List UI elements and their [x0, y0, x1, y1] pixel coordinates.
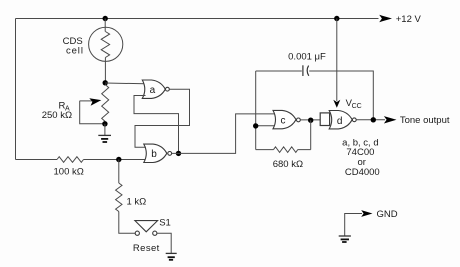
wire pot to ground	[104, 124, 106, 136]
gate b output bubble	[168, 152, 172, 156]
wire 1k resistor top	[118, 160, 120, 184]
svg-text:S1: S1	[159, 217, 171, 228]
svg-text:cell: cell	[66, 46, 84, 57]
node top rail / CDS junction	[103, 16, 108, 21]
switch S1 left contact	[135, 231, 139, 235]
svg-text:680 kΩ: 680 kΩ	[273, 159, 303, 170]
ground symbol right	[339, 235, 351, 237]
svg-text:d: d	[337, 116, 343, 127]
wire cap right to output node	[309, 71, 373, 120]
gate c output bubble	[297, 118, 301, 122]
wire Vcc drop	[336, 19, 338, 102]
node pot bottom junction	[102, 121, 107, 126]
nand gate c	[273, 110, 296, 128]
svg-text:100 kΩ: 100 kΩ	[54, 167, 84, 178]
resistor 100 k	[57, 157, 84, 163]
svg-text:c: c	[281, 116, 286, 127]
resistor 680 k	[256, 147, 311, 153]
wire left vertical rail	[15, 19, 17, 160]
ground under pot	[98, 134, 111, 136]
svg-text:0.001 μF: 0.001 μF	[288, 51, 326, 62]
wire node to gate a top input	[105, 82, 145, 85]
Vcc arrow into gate d	[333, 100, 340, 108]
svg-text:CD4000: CD4000	[345, 167, 380, 178]
photocell CDS circle	[89, 27, 123, 61]
wire resistor to b input	[84, 159, 148, 161]
svg-text:1 kΩ: 1 kΩ	[127, 196, 147, 207]
wire c output to d input	[300, 119, 320, 121]
svg-text:GND: GND	[376, 209, 397, 220]
gate a output bubble	[166, 87, 170, 91]
+12 V supply arrow	[379, 15, 392, 22]
node CDS / pot junction	[103, 80, 108, 85]
capacitor 0.001uF right plate	[307, 66, 309, 76]
node c bottom input junction	[253, 123, 258, 128]
node top rail / Vcc junction	[334, 16, 339, 21]
photocell CDS internal resistor	[101, 32, 109, 58]
wire c bottom input stub	[256, 125, 276, 127]
wire cap left feedback	[256, 70, 302, 72]
node d output junction	[371, 117, 376, 122]
wire a output feedback to b top input	[135, 89, 190, 147]
wire CDS cell drop	[104, 19, 106, 32]
wire GND stub	[345, 214, 362, 236]
wire 100k row	[16, 159, 58, 161]
wire d output	[356, 119, 385, 121]
Tone output arrow	[384, 116, 397, 123]
ground under switch	[166, 252, 177, 254]
node c output junction	[308, 118, 313, 123]
wire b output to gate c top input	[172, 114, 276, 153]
gate d input short box	[320, 113, 329, 126]
potentiometer RA wiper arrow	[80, 100, 93, 102]
wire b output feedback to a bottom input	[134, 96, 179, 154]
nand gate a	[142, 80, 165, 98]
switch S1 right contact	[153, 231, 157, 235]
capacitor 0.001uF left plate	[302, 65, 304, 76]
svg-text:+12 V: +12 V	[396, 14, 422, 25]
svg-text:250 kΩ: 250 kΩ	[42, 110, 72, 121]
gate d output bubble	[352, 118, 356, 122]
resistor 1 k	[116, 183, 122, 212]
wire 1k to switch	[119, 212, 135, 234]
wire c output down to 680k	[310, 120, 312, 149]
GND arrow	[361, 210, 372, 217]
wire wiper loop to bottom	[80, 101, 105, 124]
wire top +12V rail	[16, 18, 379, 20]
svg-text:b: b	[151, 149, 157, 160]
wire switch to ground	[157, 233, 171, 253]
node b output junction	[176, 151, 181, 156]
potentiometer RA body	[102, 85, 109, 122]
switch S1 button triangle	[135, 221, 158, 232]
svg-text:CC: CC	[352, 103, 362, 110]
wire c input vertical net	[255, 71, 257, 150]
nand gate d	[329, 111, 352, 129]
svg-text:a: a	[150, 85, 156, 96]
wire CDS bottom to node	[104, 58, 106, 83]
svg-text:Tone output: Tone output	[400, 115, 450, 126]
nand gate b	[144, 144, 167, 162]
svg-text:Reset: Reset	[133, 243, 160, 254]
node 100k / 1k junction	[116, 157, 121, 162]
